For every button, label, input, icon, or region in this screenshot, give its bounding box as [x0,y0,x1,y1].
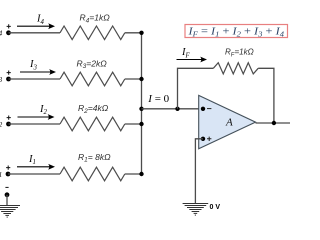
wire row3 left [9,78,61,80]
wire row2 right [125,123,142,125]
ground 0V (op-amp) [183,204,209,216]
wire row3 right [125,78,142,80]
formula box IF = I1 + I2 + I3 + I4 [185,25,288,39]
wire summing bus [141,33,143,174]
junction feedback tap [175,107,179,111]
current arrow IF [177,47,208,62]
node V3 terminal [0,71,11,84]
junction row2/bus [139,122,143,126]
junction output [272,121,276,125]
svg-text:IF = I1 + I2 + I3 + I4: IF = I1 + I2 + I3 + I4 [187,27,284,39]
wire output [256,122,291,124]
svg-text:3: 3 [0,75,3,84]
svg-text:1: 1 [0,170,2,179]
node V1 terminal [0,166,10,179]
resistor R1 [60,152,125,181]
junction inverting/bus [139,107,143,111]
svg-text:4: 4 [0,29,3,38]
junction row1/bus [139,172,143,176]
wire row4 right [125,32,142,34]
wire row4 left [9,32,61,34]
current arrow I4 [17,14,55,30]
wire minus terminal to ground [6,195,8,205]
node V4 terminal [0,24,11,37]
junction row3/bus [139,77,143,81]
current arrow I2 [18,104,55,120]
svg-text:0 V: 0 V [210,204,221,211]
wire row1 right [125,173,142,175]
wire row1 left [8,173,60,175]
resistor R4 [60,13,125,40]
wire feedback right down [258,68,274,123]
op-amp A [199,95,256,148]
svg-text:I = 0: I = 0 [147,93,169,105]
wire noninverting to ground [195,139,203,203]
ground (bottom-left) [0,206,20,218]
resistor RF [213,48,258,74]
junction row4/bus [139,31,143,35]
resistor R2 [60,103,125,131]
wire feedback up [178,68,214,109]
current arrow I1 [17,154,55,170]
node V2 terminal [0,116,11,129]
resistor R3 [60,58,125,85]
svg-text:A: A [225,117,233,129]
wire inverting input [142,108,204,110]
wire row2 left [9,123,61,125]
current arrow I3 [20,59,56,75]
node common minus terminal [5,187,10,197]
svg-text:2: 2 [0,120,3,129]
